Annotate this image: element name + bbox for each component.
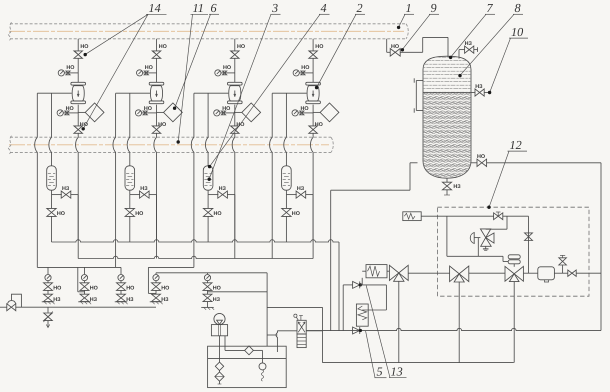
train 3 bypass valve HO: [231, 122, 245, 133]
wire train 3 riser from header 1: [234, 39, 236, 51]
label 11 with leader: [177, 1, 209, 144]
wire train 4 outlet to left: [272, 92, 306, 94]
svg-text:10: 10: [511, 25, 523, 39]
blowdown drop 3 (PI + valves HO/NZ + vent): [115, 275, 135, 305]
impulse tap valve: [559, 255, 567, 273]
label 5 with leader: [366, 331, 387, 379]
wire valve left port to tank: [276, 331, 297, 352]
wire manifold H2: [78, 256, 313, 258]
label 10 with leader: [488, 25, 528, 94]
svg-text:НЗ: НЗ: [465, 41, 473, 47]
wire train 2 left drop: [113, 93, 116, 267]
train 3 condensate pot: [203, 166, 213, 190]
vessel mesh fill: [423, 54, 471, 180]
svg-text:НО: НО: [144, 106, 152, 112]
check valve lower: [353, 327, 362, 334]
wire train 3 main drop across header 2: [232, 133, 235, 259]
label 6 with leader: [173, 1, 219, 110]
pilot supply filter box: [403, 212, 421, 221]
wire train 1 valve to gauge tee: [77, 58, 79, 82]
train 4 filter diamond: [313, 103, 339, 122]
wire drop4 feed: [148, 267, 156, 293]
pilot diaphragm: [470, 233, 480, 244]
svg-text:НО: НО: [135, 211, 143, 217]
wire pump discharge header: [267, 306, 322, 308]
wire train 4 riser from header 1: [312, 39, 314, 51]
wire train 4 pot feed drop: [284, 93, 287, 166]
wire pilot feed drop: [486, 216, 507, 229]
inlet three-way valve: [450, 266, 469, 282]
wire train 1 left drop: [35, 93, 38, 267]
regulator actuator stack: [508, 255, 520, 267]
relief valve horizontal: [362, 265, 387, 278]
svg-text:НО: НО: [66, 65, 74, 71]
train 2 bypass valve HO: [152, 122, 166, 133]
pilot supply valve: [494, 212, 503, 220]
wire train 3 valve to gauge tee: [234, 58, 236, 82]
wire regulator drop 2: [513, 282, 515, 363]
train 3 upper gauge PI: [215, 65, 235, 76]
svg-text:НО: НО: [237, 44, 245, 50]
wire train 2 riser from header 1: [156, 39, 158, 51]
wire vessel inlet over-jog: [423, 37, 448, 57]
svg-text:НО: НО: [80, 44, 88, 50]
svg-text:НО: НО: [90, 286, 98, 292]
svg-text:НО: НО: [315, 122, 323, 128]
svg-text:9: 9: [431, 1, 437, 15]
oil tank: [208, 346, 287, 387]
label 3 with leader: [208, 1, 281, 181]
svg-text:НЗ: НЗ: [213, 297, 221, 303]
wire train 1 pot drain to manifold: [51, 216, 53, 242]
train 4 condensate pot: [282, 166, 292, 190]
wire train 1 pot to valves: [51, 190, 53, 194]
svg-text:НО: НО: [213, 286, 221, 292]
svg-text:2: 2: [357, 1, 363, 15]
label 12 with leader: [487, 138, 527, 209]
suction filter diamonds: [215, 362, 224, 384]
wire train 2 valve to gauge tee: [156, 58, 158, 82]
vessel bottom drain valve NZ: [442, 178, 461, 195]
svg-text:8: 8: [515, 1, 521, 15]
train 3 lower gauge PI: [214, 106, 235, 116]
svg-text:НО: НО: [53, 286, 61, 292]
train 3 filter diamond: [235, 103, 261, 122]
label 14 with leaders: [82, 1, 167, 130]
label 4 with leader: [208, 1, 330, 168]
wire train 4 main drop across header 2: [310, 133, 313, 259]
wire blowdown collector: [16, 306, 156, 308]
wire manifold outlet drop: [338, 242, 340, 331]
vessel outlet valve HO: [471, 154, 601, 166]
wire train 1 below valve: [77, 105, 79, 127]
wire train 3 outlet to left: [194, 92, 228, 94]
pilot regulator valve: [480, 229, 494, 246]
train 2 lower gauge PI: [135, 106, 156, 116]
outlet mini valve: [568, 270, 576, 276]
wire train 2 below valve: [156, 105, 158, 127]
label 8 with leader: [458, 1, 523, 77]
train 3 pot branch valve NZ: [208, 186, 235, 198]
bottom-left drain valve with arrow: [43, 307, 52, 327]
wire train 2 pot to valves: [129, 190, 131, 194]
blowdown drop 4 (PI + valves HO/NZ + vent): [150, 275, 170, 305]
wire train 4 branch drop: [312, 195, 314, 242]
wire train 1 main drop across header 2: [76, 133, 79, 259]
svg-text:НО: НО: [301, 65, 309, 71]
directional control valve: [294, 314, 306, 348]
train 2 pot branch valve NZ: [130, 186, 157, 198]
train 1 filter diamond: [78, 103, 104, 122]
pipe header 1 (inlet manifold): [8, 22, 408, 40]
pump motor unit: [211, 313, 227, 335]
svg-text:7: 7: [487, 1, 494, 15]
train 4 upper gauge PI: [293, 65, 313, 76]
relief valve vertical: [356, 304, 368, 326]
wire pilot sense line: [477, 238, 479, 257]
svg-text:НО: НО: [315, 44, 323, 50]
wire bottom loop: [306, 328, 601, 330]
svg-text:НЗ: НЗ: [62, 186, 70, 192]
svg-text:НЗ: НЗ: [140, 186, 148, 192]
check valve upper: [353, 281, 362, 288]
train 3 pot drain valve HO: [203, 195, 221, 217]
wire valve right port: [306, 330, 322, 332]
svg-text:НЗ: НЗ: [453, 184, 461, 190]
svg-text:НО: НО: [214, 211, 222, 217]
vessel shell: [423, 56, 471, 178]
train 1 condensate pot: [47, 166, 57, 190]
wire train 4 left drop: [270, 93, 273, 258]
svg-text:НО: НО: [236, 122, 244, 128]
train 2 shut-off control valve: [149, 82, 164, 103]
svg-text:НО: НО: [57, 211, 65, 217]
tank suction header: [225, 346, 263, 363]
wire train 4 valve to gauge tee: [312, 58, 314, 82]
wire right loop vertical: [600, 163, 602, 331]
train 2 upper gauge PI: [137, 65, 157, 76]
svg-text:3: 3: [271, 1, 278, 15]
pilot vent: [483, 246, 489, 250]
svg-text:НЗ: НЗ: [161, 297, 169, 303]
wire lower return line: [323, 331, 514, 363]
train 4 pot drain valve HO: [282, 195, 300, 217]
cluster three-way valve: [387, 265, 438, 281]
train 2 condensate pot: [125, 166, 135, 190]
wire pump suction legs: [220, 336, 226, 362]
train 4 bypass valve HO: [309, 122, 323, 133]
svg-text:НО: НО: [66, 106, 74, 112]
wire vessel drain line: [331, 163, 418, 190]
svg-text:14: 14: [149, 1, 161, 15]
wire manifold H3b: [148, 266, 194, 268]
wire train 2 branch drop: [156, 195, 158, 241]
train 1 lower gauge PI: [57, 106, 78, 116]
train 3 shut-off control valve: [228, 82, 243, 103]
bottom-left pressure control valve: [0, 294, 21, 311]
wire train 2 pot drain to manifold: [129, 216, 131, 242]
svg-text:НО: НО: [161, 286, 169, 292]
blowdown drop 1 (PI + valves HO/NZ + vent): [42, 275, 62, 305]
bypass needle valve: [525, 233, 533, 241]
wire cluster inlet: [343, 285, 352, 331]
train 1 shut-off control valve: [71, 82, 86, 103]
wire cluster loop: [360, 278, 387, 310]
wire discharge down leg: [322, 307, 324, 330]
label 7 with leader: [449, 1, 495, 59]
wire pilot supply line: [421, 215, 528, 217]
wire train 3 pot to valves: [207, 190, 209, 194]
wire train 1 branch drop: [77, 195, 79, 241]
wire bypass riser: [528, 216, 530, 273]
svg-text:НЗ: НЗ: [53, 297, 61, 303]
svg-text:НО: НО: [159, 44, 167, 50]
wire train 2 main drop across header 2: [154, 133, 157, 259]
train 4 shut-off control valve: [306, 82, 321, 103]
train 1 pot branch valve NZ: [52, 186, 79, 198]
train 1 pot drain valve HO: [47, 195, 65, 217]
wire train 1 pot feed drop: [49, 93, 52, 166]
wire drain drop: [330, 190, 332, 330]
svg-text:6: 6: [211, 1, 218, 15]
svg-text:1: 1: [406, 1, 412, 15]
train 4 pot branch valve NZ: [286, 186, 313, 198]
label 9 with leader: [401, 1, 439, 51]
wire train 3 pot drain to manifold: [207, 216, 209, 242]
wire cluster drop: [398, 281, 400, 363]
wire train 2 outlet to left: [116, 92, 150, 94]
svg-text:НО: НО: [145, 65, 153, 71]
svg-text:НО: НО: [126, 286, 134, 292]
label 2 with leader: [315, 1, 365, 89]
wire manifold H4: [156, 273, 267, 275]
svg-text:НЗ: НЗ: [219, 186, 227, 192]
wire pump pressure riser: [266, 273, 268, 346]
svg-text:НО: НО: [477, 154, 485, 160]
train 4 lower gauge PI: [292, 106, 313, 116]
train 1 inlet valve HO: [74, 44, 89, 58]
wire vessel inlet drop: [386, 39, 388, 53]
svg-text:НО: НО: [223, 65, 231, 71]
svg-text:НО: НО: [158, 122, 166, 128]
svg-text:НО: НО: [292, 211, 300, 217]
svg-text:13: 13: [391, 365, 403, 379]
wire train 4 below valve: [312, 105, 314, 127]
wire train 3 left drop: [191, 93, 194, 267]
train 1 bypass valve HO: [74, 122, 88, 133]
train 2 pot drain valve HO: [125, 195, 143, 217]
svg-text:НЗ: НЗ: [126, 297, 134, 303]
blowdown drop 2 (PI + valves HO/NZ + vent): [78, 275, 98, 305]
svg-text:11: 11: [193, 1, 204, 15]
wire impulse branch: [208, 291, 268, 293]
regulator unit dashed enclosure: [438, 207, 590, 296]
wire train 2 pot feed drop: [127, 93, 130, 166]
wire drop2 feed: [78, 267, 85, 291]
suction strainer: [259, 363, 266, 381]
svg-text:НО: НО: [391, 44, 399, 50]
vessel top vent valve NZ: [459, 41, 478, 59]
train 4 inlet valve HO: [309, 44, 324, 58]
svg-text:НО: НО: [222, 106, 230, 112]
svg-text:НЗ: НЗ: [475, 84, 483, 90]
wire train 3 pot feed drop: [205, 93, 208, 166]
vessel level line: [423, 92, 471, 94]
wire train 1 outlet to left: [37, 92, 71, 94]
svg-text:НЗ: НЗ: [90, 297, 98, 303]
svg-text:4: 4: [321, 1, 327, 15]
label 13 with leader: [366, 286, 406, 379]
label 1 with leader: [397, 1, 414, 29]
wire train 1 riser from header 1: [77, 39, 79, 51]
wire train 3 below valve: [234, 105, 236, 127]
wire tank stub line: [267, 334, 277, 336]
wire train 4 pot drain to manifold: [285, 216, 287, 242]
train 3 inlet valve HO: [231, 44, 246, 58]
svg-text:НО: НО: [301, 106, 309, 112]
wire train 4 pot to valves: [285, 190, 287, 194]
wire manifold H1: [52, 240, 340, 242]
wire manifold H3: [37, 267, 121, 274]
train 2 inlet valve HO: [152, 44, 167, 58]
train 1 upper gauge PI: [58, 65, 78, 76]
wire pilot output: [447, 216, 508, 261]
blowdown drop 5 (PI + valves HO/NZ + vent): [201, 275, 221, 310]
wire train 3 branch drop: [234, 195, 236, 242]
vessel inlet valve HO: [387, 44, 423, 56]
wire regulator main line: [438, 272, 602, 274]
train 2 filter diamond: [157, 103, 183, 122]
regulator control valve: [505, 266, 523, 281]
svg-text:12: 12: [510, 138, 522, 152]
vessel side valve NZ: [471, 84, 490, 96]
vessel level gauge bracket: [414, 78, 423, 112]
svg-text:5: 5: [377, 365, 383, 379]
wire regulator drop 1: [458, 282, 460, 363]
svg-text:НЗ: НЗ: [297, 186, 305, 192]
outlet fitting: [538, 267, 555, 282]
pipe header 2 (outlet manifold): [8, 136, 333, 154]
